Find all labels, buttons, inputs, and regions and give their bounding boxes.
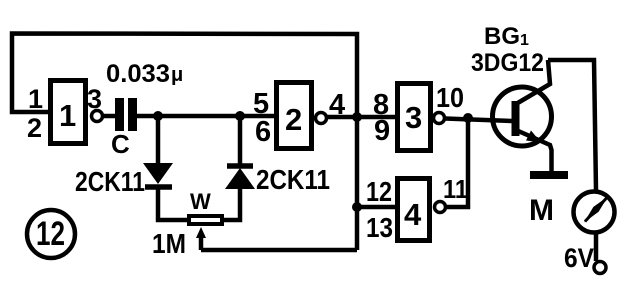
transistor Q1 circle (493, 87, 552, 146)
junction node pin10 (463, 113, 473, 123)
svg-text:12: 12 (366, 176, 392, 207)
M symbol bar (530, 171, 568, 179)
svg-text:6V: 6V (564, 243, 594, 273)
svg-text:C: C (111, 129, 130, 159)
transistor Q1 collector (516, 60, 550, 104)
capacitor C plates (115, 98, 124, 131)
potentiometer wiper arrow (196, 227, 206, 250)
junction node after C (153, 111, 163, 121)
wire pin10 junction down to pin11 (446, 118, 468, 207)
gate U1 box (51, 81, 86, 144)
wire meter to terminal (594, 233, 599, 261)
svg-text:11: 11 (443, 174, 468, 204)
inverter bubble U3 out (434, 113, 445, 124)
meter circle (574, 192, 615, 233)
svg-text:W: W (190, 189, 211, 214)
gate U4 box (398, 179, 430, 241)
svg-text:1: 1 (28, 84, 43, 114)
svg-text:M: M (529, 194, 554, 227)
svg-text:μ: μ (171, 64, 183, 86)
wire feedback: box1 input, left vertical, top horizontal (12, 34, 357, 116)
transistor Q1 emitter (516, 130, 552, 172)
meter needle (584, 197, 608, 223)
svg-text:2: 2 (285, 102, 302, 137)
wire D2 to pot right (223, 188, 240, 220)
svg-text:9: 9 (374, 115, 390, 147)
wire pin10 to base (445, 119, 512, 122)
inverter bubble U1 out (92, 111, 103, 122)
inverter bubble U2 out (316, 113, 327, 124)
wire to diode D2 (238, 116, 243, 166)
diode D2 2CK11 (pointing up) (225, 166, 255, 189)
inverter bubble U4 out (435, 202, 446, 213)
diode D1 2CK11 (pointing down) (143, 163, 173, 187)
wire wiper to bus (201, 248, 357, 253)
svg-text:2CK11: 2CK11 (256, 164, 330, 195)
wire bus to box3 (357, 115, 397, 120)
svg-text:2: 2 (27, 113, 42, 143)
wire D1 to pot left (158, 187, 188, 220)
svg-text:1: 1 (59, 98, 76, 133)
figure number 12 circle (27, 210, 75, 258)
wire bus to box4 (357, 205, 397, 210)
svg-text:12: 12 (36, 215, 65, 253)
junction node pins 12/13 (352, 202, 362, 212)
terminal 6V circle (594, 262, 606, 274)
svg-text:2CK11: 2CK11 (75, 166, 145, 197)
wire vertical bus x=359 (355, 115, 360, 250)
svg-text:1M: 1M (152, 228, 186, 259)
svg-text:10: 10 (436, 82, 464, 113)
wire C to box2 (137, 114, 277, 119)
svg-text:0.033: 0.033 (106, 60, 170, 88)
potentiometer W body (189, 216, 222, 224)
wire to diode D1 (156, 116, 161, 164)
svg-text:6: 6 (255, 116, 271, 148)
svg-text:3DG12: 3DG12 (471, 49, 544, 77)
gate U2 box (277, 83, 312, 149)
junction node pin4/bus (352, 112, 362, 122)
wire bubble4 to bus (327, 115, 357, 120)
svg-text:4: 4 (404, 197, 422, 232)
wire bubble to C (103, 114, 115, 119)
gate U3 box (398, 84, 431, 151)
svg-text:3: 3 (405, 100, 422, 135)
junction node before diode D2 (235, 111, 245, 121)
svg-text:13: 13 (366, 212, 393, 243)
transistor Q1 base bar (512, 101, 520, 136)
wire collector to meter (548, 60, 596, 190)
